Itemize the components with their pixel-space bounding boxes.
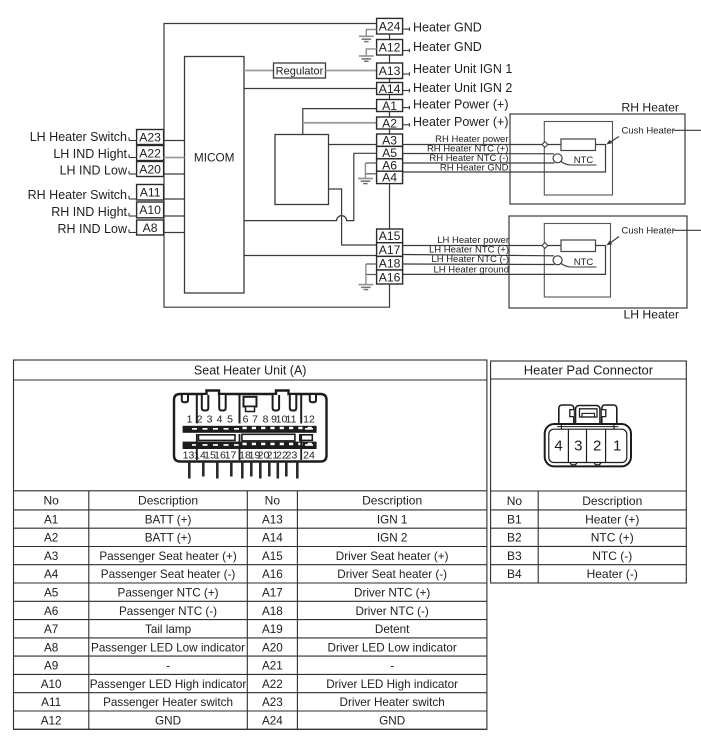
wire driver block to pin A15 (LH heater power) bbox=[329, 189, 377, 245]
junction diamond LH power bbox=[542, 243, 548, 249]
svg-text:RH Heater Switch: RH Heater Switch bbox=[28, 188, 127, 202]
svg-text:6: 6 bbox=[243, 414, 249, 426]
svg-text:No: No bbox=[265, 494, 281, 508]
pin label RH IND Hight bbox=[129, 215, 137, 217]
svg-text:B1: B1 bbox=[507, 512, 522, 526]
svg-text:Driver Seat heater (-): Driver Seat heater (-) bbox=[337, 568, 447, 581]
Heater Pad 4-pin connector drawing bbox=[545, 405, 631, 466]
svg-text:11: 11 bbox=[286, 414, 297, 426]
RH cushion heater inner box bbox=[544, 122, 612, 196]
svg-text:NTC (+): NTC (+) bbox=[591, 531, 634, 545]
wire RH heater element return loop bbox=[544, 145, 605, 173]
svg-text:A18: A18 bbox=[262, 605, 283, 618]
MICOM U1 (microcomputer block) bbox=[185, 57, 245, 294]
svg-text:LH Heater ground: LH Heater ground bbox=[433, 264, 509, 275]
svg-text:LH IND Low: LH IND Low bbox=[60, 163, 128, 177]
wire RH Heater NTC (+) (A5 to NTC) bbox=[403, 153, 554, 155]
wire LH Heater power (A15 to heater element) bbox=[403, 245, 561, 247]
svg-text:Driver NTC (+): Driver NTC (+) bbox=[354, 586, 430, 599]
LH cushion heater inner box bbox=[544, 224, 610, 298]
svg-text:Cush Heater: Cush Heater bbox=[622, 126, 675, 137]
svg-text:Description: Description bbox=[582, 494, 642, 508]
ground bbox=[366, 30, 376, 37]
connector pin A3 bbox=[377, 134, 403, 146]
svg-text:23: 23 bbox=[286, 449, 298, 461]
svg-text:3: 3 bbox=[574, 438, 582, 455]
svg-text:A9: A9 bbox=[44, 660, 58, 673]
svg-text:A23: A23 bbox=[139, 130, 161, 144]
svg-text:A8: A8 bbox=[143, 221, 158, 235]
svg-text:Passenger LED High indicator: Passenger LED High indicator bbox=[90, 678, 247, 691]
svg-text:Passenger NTC (-): Passenger NTC (-) bbox=[119, 605, 217, 618]
connector pin A15 bbox=[377, 229, 403, 243]
svg-text:A22: A22 bbox=[262, 678, 283, 691]
wire pin A23 to MICOM bbox=[164, 140, 185, 142]
svg-text:RH IND Hight: RH IND Hight bbox=[51, 205, 127, 219]
svg-text:A21: A21 bbox=[262, 660, 283, 673]
svg-text:GND: GND bbox=[155, 714, 181, 727]
svg-text:Passenger LED Low indicator: Passenger LED Low indicator bbox=[91, 641, 245, 654]
svg-text:Driver NTC (-): Driver NTC (-) bbox=[355, 605, 428, 618]
wire Regulator to pin A13 bbox=[326, 70, 377, 72]
svg-text:4: 4 bbox=[217, 414, 223, 426]
RH NTC thermistor TH1 bbox=[553, 154, 562, 163]
regulator U2 bbox=[274, 63, 326, 78]
svg-text:No: No bbox=[507, 494, 523, 508]
wire pin A20 to MICOM bbox=[164, 173, 185, 175]
svg-text:A15: A15 bbox=[379, 229, 401, 243]
pin label LH Heater Switch bbox=[129, 140, 137, 142]
svg-text:A15: A15 bbox=[262, 550, 283, 563]
wire MICOM to pin A17 (LH heater NTC +) bbox=[244, 255, 377, 257]
connector pin A13 bbox=[377, 63, 403, 79]
pin label Heater GND bbox=[403, 50, 410, 52]
wire LH Heater ground (A16 to heater return) bbox=[403, 273, 545, 275]
svg-text:Heater Unit IGN 1: Heater Unit IGN 1 bbox=[413, 62, 512, 76]
svg-text:12: 12 bbox=[303, 414, 315, 426]
svg-text:Driver Heater switch: Driver Heater switch bbox=[340, 696, 445, 709]
svg-text:Tail lamp: Tail lamp bbox=[145, 623, 192, 636]
wire LH Heater NTC (-) (A18 to NTC) bbox=[403, 263, 555, 266]
RH cush heater element R1 bbox=[561, 139, 596, 151]
pin label Heater Unit IGN 1 bbox=[403, 73, 410, 75]
connector terminal pins bbox=[188, 462, 191, 479]
svg-text:IGN 2: IGN 2 bbox=[377, 532, 408, 545]
LH cush heater element R2 bbox=[561, 240, 596, 252]
svg-text:A18: A18 bbox=[379, 257, 401, 271]
svg-text:17: 17 bbox=[225, 449, 237, 461]
wire driver block to pin A1 (Heater Power +) bbox=[303, 109, 377, 135]
table Seat Heater Unit (A) frame bbox=[14, 360, 487, 729]
svg-text:A14: A14 bbox=[262, 532, 283, 545]
svg-text:B3: B3 bbox=[507, 549, 522, 563]
pin slot bar upper bbox=[183, 426, 317, 433]
wire pin A22 to MICOM bbox=[164, 157, 185, 159]
wire ground return bus (left loop) bbox=[164, 24, 390, 308]
svg-text:A4: A4 bbox=[44, 568, 59, 581]
connector mid rib bbox=[199, 435, 236, 441]
svg-text:A14: A14 bbox=[379, 82, 401, 96]
svg-text:Passenger Heater switch: Passenger Heater switch bbox=[103, 696, 233, 709]
svg-text:Driver LED High indicator: Driver LED High indicator bbox=[326, 678, 458, 691]
svg-text:RH Heater: RH Heater bbox=[621, 101, 679, 115]
svg-text:BATT (+): BATT (+) bbox=[145, 513, 192, 526]
wire driver block to pin A3 (RH heater power) bbox=[329, 144, 377, 146]
ground bbox=[365, 264, 367, 285]
svg-text:A24: A24 bbox=[379, 20, 401, 34]
connector pin A11 bbox=[137, 185, 164, 201]
svg-text:RH IND Low: RH IND Low bbox=[58, 222, 128, 236]
Seat Heater Unit 24-pin connector drawing bbox=[174, 391, 327, 479]
svg-text:A24: A24 bbox=[262, 714, 283, 727]
svg-text:5: 5 bbox=[227, 414, 233, 426]
connector pin A8 bbox=[137, 220, 164, 235]
svg-text:B4: B4 bbox=[507, 567, 522, 581]
connector pin A18 bbox=[377, 256, 403, 270]
svg-text:A17: A17 bbox=[379, 243, 401, 257]
connector pin A5 bbox=[377, 146, 403, 158]
connector pin A20 bbox=[137, 162, 164, 177]
svg-text:Heater GND: Heater GND bbox=[413, 20, 482, 34]
svg-text:IGN 1: IGN 1 bbox=[377, 513, 408, 526]
ground hook pin A4 bbox=[365, 173, 376, 175]
svg-text:Passenger Seat heater (-): Passenger Seat heater (-) bbox=[101, 568, 236, 581]
svg-text:Heater Unit IGN 2: Heater Unit IGN 2 bbox=[413, 81, 512, 95]
svg-text:LH IND Hight: LH IND Hight bbox=[53, 147, 127, 161]
svg-text:A13: A13 bbox=[262, 513, 283, 526]
RH Heater outer box bbox=[510, 114, 685, 204]
svg-text:2: 2 bbox=[197, 414, 203, 426]
connector pin A6 bbox=[377, 159, 403, 171]
pin label Heater Unit IGN 2 bbox=[403, 90, 410, 92]
pin label Heater Power (+) bbox=[403, 107, 410, 109]
svg-text:-: - bbox=[166, 660, 170, 673]
wire LH heater element return loop bbox=[544, 246, 605, 275]
svg-text:MICOM: MICOM bbox=[194, 151, 235, 165]
svg-text:-: - bbox=[390, 660, 394, 673]
svg-text:A3: A3 bbox=[44, 550, 58, 563]
svg-text:NTC: NTC bbox=[574, 257, 594, 268]
wire MICOM to pin A14 (Heater Unit IGN 2) bbox=[244, 88, 377, 90]
svg-text:A22: A22 bbox=[139, 146, 161, 160]
wire pin column link bbox=[389, 79, 391, 83]
svg-text:A1: A1 bbox=[44, 513, 58, 526]
svg-text:8: 8 bbox=[263, 414, 269, 426]
connector pin A22 bbox=[137, 146, 164, 161]
svg-text:A10: A10 bbox=[139, 203, 161, 217]
svg-text:Heater Power (+): Heater Power (+) bbox=[413, 115, 509, 129]
svg-text:A20: A20 bbox=[262, 641, 283, 654]
svg-text:13: 13 bbox=[183, 449, 195, 461]
svg-text:A5: A5 bbox=[44, 586, 59, 599]
pin label Heater GND bbox=[403, 28, 410, 30]
svg-text:Heater (-): Heater (-) bbox=[587, 567, 638, 581]
pin label RH IND Low bbox=[129, 232, 137, 234]
svg-text:A7: A7 bbox=[44, 623, 58, 636]
connector pin A23 bbox=[137, 130, 164, 145]
svg-text:A23: A23 bbox=[262, 696, 283, 709]
svg-text:A12: A12 bbox=[379, 41, 401, 55]
svg-text:7: 7 bbox=[252, 414, 258, 426]
svg-text:1: 1 bbox=[187, 414, 193, 426]
LH Heater outer box bbox=[509, 216, 687, 308]
ground hook pin A18 bbox=[366, 263, 377, 265]
junction diamond RH power bbox=[542, 142, 548, 148]
svg-text:A12: A12 bbox=[41, 714, 62, 727]
svg-text:Detent: Detent bbox=[375, 623, 410, 636]
connector pin A4 bbox=[377, 171, 403, 183]
svg-text:Driver LED Low indicator: Driver LED Low indicator bbox=[328, 641, 457, 654]
svg-text:A4: A4 bbox=[382, 171, 397, 185]
svg-text:Passenger NTC (+): Passenger NTC (+) bbox=[118, 586, 219, 599]
wire RH Heater NTC (-) (A6 to NTC) bbox=[403, 162, 555, 164]
ground bbox=[366, 49, 376, 56]
svg-text:NTC: NTC bbox=[574, 155, 594, 166]
svg-text:A8: A8 bbox=[44, 641, 58, 654]
svg-text:Heater (+): Heater (+) bbox=[585, 512, 639, 526]
connector pin A1 bbox=[377, 100, 403, 112]
svg-text:A13: A13 bbox=[379, 64, 401, 78]
wire pin column link bbox=[389, 95, 391, 100]
svg-text:A20: A20 bbox=[139, 162, 161, 176]
svg-text:No: No bbox=[43, 494, 59, 508]
wire MICOM to Regulator bbox=[244, 70, 274, 72]
svg-text:A16: A16 bbox=[262, 568, 283, 581]
connector pin A16 bbox=[377, 270, 403, 284]
svg-text:Seat Heater Unit (A): Seat Heater Unit (A) bbox=[194, 364, 307, 378]
wire pin A8 to MICOM bbox=[164, 232, 185, 234]
svg-text:B2: B2 bbox=[507, 531, 522, 545]
svg-text:A16: A16 bbox=[379, 270, 401, 284]
svg-text:NTC (-): NTC (-) bbox=[592, 549, 632, 563]
svg-text:A17: A17 bbox=[262, 586, 283, 599]
svg-text:3: 3 bbox=[207, 414, 213, 426]
connector pin A17 bbox=[377, 243, 403, 257]
wire RH Heater GND (A4 to heater return) bbox=[403, 171, 545, 173]
svg-text:2: 2 bbox=[593, 438, 601, 455]
svg-text:A19: A19 bbox=[262, 623, 283, 636]
wire pin column link bbox=[389, 184, 391, 229]
ground hook pin A6 bbox=[365, 162, 376, 164]
svg-text:BATT (+): BATT (+) bbox=[145, 532, 192, 545]
svg-text:Heater GND: Heater GND bbox=[413, 40, 482, 54]
svg-text:Cush Heater: Cush Heater bbox=[622, 226, 675, 237]
svg-text:A2: A2 bbox=[382, 116, 397, 130]
wire driver block to pin A2 (Heater Power +) bbox=[303, 122, 377, 124]
svg-text:4: 4 bbox=[554, 438, 562, 455]
ground bbox=[364, 163, 366, 179]
wire pin column link bbox=[389, 55, 391, 63]
wire pin A11 to MICOM bbox=[164, 198, 185, 200]
connector pin A12 bbox=[377, 40, 403, 56]
svg-text:Regulator: Regulator bbox=[276, 65, 324, 77]
wire MICOM to pin A5 (RH heater NTC +) with crossover hop bbox=[244, 153, 377, 220]
svg-text:A1: A1 bbox=[382, 99, 397, 113]
svg-text:LH Heater Switch: LH Heater Switch bbox=[30, 130, 127, 144]
svg-text:A10: A10 bbox=[41, 678, 62, 691]
svg-text:24: 24 bbox=[303, 449, 315, 461]
svg-text:A2: A2 bbox=[44, 532, 58, 545]
wire RH Heater power (A3 to heater element) bbox=[403, 144, 561, 146]
table Heater Pad Connector frame bbox=[491, 361, 687, 583]
pin label RH Heater Switch bbox=[129, 198, 137, 200]
svg-text:Heater Pad Connector: Heater Pad Connector bbox=[524, 363, 654, 378]
svg-text:A11: A11 bbox=[41, 696, 61, 709]
wire pin column link bbox=[389, 34, 391, 40]
heater driver block U3 bbox=[275, 135, 329, 205]
connector pin A24 bbox=[377, 18, 403, 34]
connector pin A14 bbox=[377, 83, 403, 95]
pin label Heater Power (+) bbox=[403, 124, 410, 126]
wire pin column link bbox=[389, 112, 391, 118]
svg-text:Description: Description bbox=[362, 494, 422, 508]
svg-text:GND: GND bbox=[379, 714, 405, 727]
LH NTC thermistor TH2 bbox=[553, 256, 562, 265]
svg-text:A6: A6 bbox=[44, 605, 58, 618]
pin label LH IND Low bbox=[129, 173, 137, 175]
svg-text:Passenger Seat heater (+): Passenger Seat heater (+) bbox=[99, 550, 237, 563]
svg-text:Heater Power (+): Heater Power (+) bbox=[413, 97, 509, 111]
wire pin A10 to MICOM bbox=[164, 215, 185, 217]
svg-text:1: 1 bbox=[613, 438, 621, 455]
svg-text:RH Heater GND: RH Heater GND bbox=[440, 162, 509, 173]
svg-text:A11: A11 bbox=[140, 186, 161, 200]
svg-text:LH Heater: LH Heater bbox=[623, 308, 679, 322]
connector pin A10 bbox=[137, 202, 164, 218]
connector pin A2 bbox=[377, 117, 403, 129]
ground hook pin A16 bbox=[366, 274, 377, 276]
svg-text:Driver Seat heater (+): Driver Seat heater (+) bbox=[336, 550, 449, 563]
wire LH Heater NTC (+) (A17 to NTC) bbox=[403, 255, 554, 256]
svg-text:Description: Description bbox=[138, 494, 198, 508]
wire pin column link bbox=[389, 129, 391, 134]
pin label LH IND Hight bbox=[129, 157, 137, 159]
pin slot bar lower bbox=[183, 442, 317, 449]
